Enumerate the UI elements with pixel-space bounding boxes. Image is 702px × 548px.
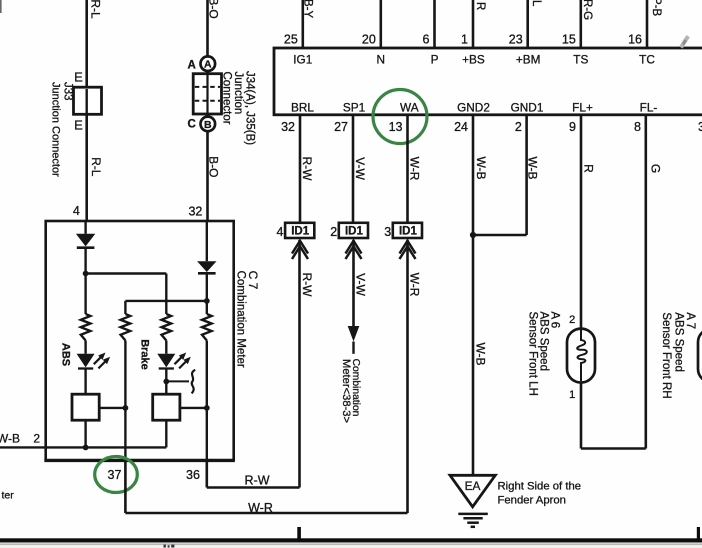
svg-text:32: 32 xyxy=(281,120,295,134)
svg-text:FL+: FL+ xyxy=(572,101,593,115)
wire B-O (to combination meter pin 32) xyxy=(206,0,209,221)
tiny cut glyphs xyxy=(164,545,166,548)
wire W-R lower xyxy=(406,240,409,513)
wire (to pin 36) xyxy=(206,408,208,461)
svg-text:20: 20 xyxy=(362,33,376,47)
wire xyxy=(165,369,167,395)
svg-text:W-R: W-R xyxy=(407,273,421,297)
wire xyxy=(84,420,86,447)
wire WA pin 13 (W-R) upper xyxy=(406,115,409,222)
wire (pin 4 to diode) xyxy=(84,221,86,234)
connector ring A xyxy=(201,56,216,71)
svg-text:ter: ter xyxy=(2,490,15,502)
svg-text:24: 24 xyxy=(454,120,468,134)
svg-text:R-L: R-L xyxy=(89,157,103,177)
svg-text:16: 16 xyxy=(628,33,642,47)
svg-text:9: 9 xyxy=(569,120,576,134)
off-page arrow to combination meter xyxy=(348,326,360,342)
wire IG1 pin 25 (to top) xyxy=(301,0,304,48)
svg-text:J33: J33 xyxy=(62,82,74,101)
wire N pin 20 (to top) xyxy=(379,0,382,48)
pencil mark xyxy=(681,36,688,47)
svg-text:37: 37 xyxy=(108,468,122,482)
junction xyxy=(204,298,210,304)
svg-text:Fender Apron: Fender Apron xyxy=(498,494,566,506)
resistor R1 xyxy=(81,314,91,341)
wire +BS pin 1 (to top) xyxy=(472,0,475,48)
svg-text:+BS: +BS xyxy=(462,53,485,67)
wire R-W horizontal xyxy=(207,486,300,489)
diode D2 xyxy=(197,261,216,272)
svg-text:1: 1 xyxy=(461,33,468,47)
svg-text:R-W: R-W xyxy=(245,473,270,487)
svg-text:27: 27 xyxy=(334,120,348,134)
connector ID1 pin 4 box xyxy=(285,223,314,238)
wire pin 37 to W-R xyxy=(124,460,127,513)
svg-text:B-O: B-O xyxy=(207,156,221,177)
svg-text:Sensor Front RH: Sensor Front RH xyxy=(660,312,672,398)
wire pin 36 to R-W xyxy=(206,460,209,487)
svg-text:4: 4 xyxy=(73,204,80,218)
svg-text:3: 3 xyxy=(698,120,702,134)
svg-text:Junction Connector: Junction Connector xyxy=(50,82,62,177)
wire to rheostat squiggle xyxy=(166,380,189,382)
wire R-L (to combination meter pin 4) xyxy=(85,0,88,221)
svg-text:36: 36 xyxy=(186,468,200,482)
wire FL+ pin 9 (R) xyxy=(580,115,583,329)
wire R-W lower xyxy=(298,240,301,488)
wire xyxy=(84,341,86,354)
svg-text:P: P xyxy=(431,53,439,67)
Brake warning LED xyxy=(157,354,175,368)
resistor R2 xyxy=(121,314,131,341)
svg-text:TS: TS xyxy=(573,53,588,67)
svg-text:Combination Meter: Combination Meter xyxy=(235,271,247,368)
svg-text:TC: TC xyxy=(639,53,655,67)
ABS speed sensor A7 body (clipped at edge) xyxy=(698,329,702,383)
resistor R4 xyxy=(202,314,212,341)
svg-text:23: 23 xyxy=(509,33,523,47)
ground EA triangle xyxy=(450,475,495,507)
svg-text:A: A xyxy=(204,59,212,71)
rheostat squiggle xyxy=(192,370,196,394)
svg-text:Meter<38-3>: Meter<38-3> xyxy=(340,359,352,423)
wire xyxy=(124,341,126,408)
wire xyxy=(165,341,167,354)
svg-text:W-R: W-R xyxy=(248,501,273,515)
svg-text:W-B: W-B xyxy=(474,156,488,179)
junction connector J34/J35 box xyxy=(193,74,221,114)
wire P pin 6 (to top) xyxy=(433,0,436,48)
svg-text:A 7: A 7 xyxy=(684,312,696,329)
svg-text:B: B xyxy=(204,119,212,131)
svg-text:13: 13 xyxy=(389,120,403,134)
wire xyxy=(206,341,208,408)
svg-text:2: 2 xyxy=(33,432,40,446)
svg-text:GND2: GND2 xyxy=(457,101,490,115)
svg-text:WA: WA xyxy=(400,101,419,115)
connector ID1 pin 2 box xyxy=(339,223,368,238)
wire (to pin 37) xyxy=(124,408,126,461)
junction connector J33 box xyxy=(74,87,102,114)
svg-text:W-B: W-B xyxy=(473,342,487,365)
svg-text:J34(A), J35(B): J34(A), J35(B) xyxy=(243,71,255,145)
svg-text:4: 4 xyxy=(277,225,284,239)
svg-text:P-B: P-B xyxy=(650,0,662,17)
svg-text:25: 25 xyxy=(284,33,298,47)
frame tick right xyxy=(697,527,700,539)
svg-text:L: L xyxy=(530,0,542,7)
bottom frame bar xyxy=(0,538,702,542)
svg-text:R-L: R-L xyxy=(88,0,102,19)
wire GND2 pin 24 (W-B) xyxy=(472,115,475,475)
wire W-B (meter pin 2) xyxy=(0,446,166,448)
svg-text:Junction: Junction xyxy=(232,72,244,115)
junction xyxy=(83,271,89,277)
svg-text:A: A xyxy=(188,60,196,72)
wire (diode 2 junction to resistor R2) xyxy=(125,300,206,302)
lamp module box S2 xyxy=(153,394,180,420)
svg-text:32: 32 xyxy=(188,205,202,219)
wire S2 to node xyxy=(180,407,207,409)
junction xyxy=(204,405,210,411)
svg-text:2: 2 xyxy=(330,225,337,239)
svg-text:C 7: C 7 xyxy=(246,271,260,290)
svg-text:EA: EA xyxy=(465,479,481,493)
wire GND1 pin 2 (W-B) xyxy=(525,115,528,235)
svg-text:8: 8 xyxy=(634,120,641,134)
wire TS pin 15 (to top) xyxy=(579,0,582,48)
svg-text:Sensor Front LH: Sensor Front LH xyxy=(527,312,539,396)
svg-text:3: 3 xyxy=(384,225,391,239)
svg-text:Right Side of the: Right Side of the xyxy=(498,481,582,493)
svg-text:R: R xyxy=(581,164,595,173)
svg-text:V-W: V-W xyxy=(353,273,367,296)
wire FL- pin 8 (G) xyxy=(644,115,647,449)
svg-text:R-G: R-G xyxy=(581,0,593,20)
wire S1 to node xyxy=(99,407,125,409)
svg-text:ID1: ID1 xyxy=(291,226,310,238)
svg-text:SP1: SP1 xyxy=(343,101,365,115)
connector chevrons xyxy=(346,241,362,254)
wire TC pin 16 (to top) xyxy=(646,0,649,48)
wire xyxy=(206,301,208,314)
svg-text:W-B: W-B xyxy=(0,432,20,446)
wire +BM pin 23 (to top) xyxy=(526,0,529,48)
svg-text:R-W: R-W xyxy=(300,273,314,298)
bottom strip xyxy=(0,545,702,548)
svg-text:GND1: GND1 xyxy=(511,101,544,115)
ABS speed sensor A6 body xyxy=(567,329,595,383)
combination meter C7 box xyxy=(46,221,234,460)
svg-text:W-B: W-B xyxy=(526,156,540,179)
junction xyxy=(83,445,89,451)
svg-text:V-W: V-W xyxy=(353,157,367,180)
junction xyxy=(123,405,129,411)
svg-text:ID1: ID1 xyxy=(345,226,364,238)
svg-text:FL-: FL- xyxy=(640,101,658,115)
connector chevrons xyxy=(292,241,308,254)
table rule below frame xyxy=(0,544,702,545)
svg-text:ABS Speed: ABS Speed xyxy=(673,312,685,371)
wire xyxy=(84,369,86,395)
junction (brake test line) xyxy=(163,379,169,385)
svg-text:E: E xyxy=(74,118,83,133)
svg-text:R: R xyxy=(474,2,486,10)
svg-text:C: C xyxy=(187,119,195,131)
svg-text:Brake: Brake xyxy=(138,339,150,370)
connector chevrons xyxy=(400,241,416,254)
svg-text:1: 1 xyxy=(569,389,575,401)
svg-text:G: G xyxy=(648,164,662,173)
svg-text:N: N xyxy=(377,53,386,67)
diode D1 xyxy=(76,234,95,247)
wire xyxy=(84,274,86,315)
highlight circle around WA pin 13 xyxy=(373,90,427,144)
wire (diode junction to brake chain) xyxy=(86,272,167,274)
svg-text:BRL: BRL xyxy=(291,101,314,115)
wire xyxy=(165,420,167,447)
connector ring B xyxy=(201,117,216,132)
wire (pin 32 to diode) xyxy=(206,221,208,261)
wire xyxy=(84,248,86,274)
svg-text:+BM: +BM xyxy=(516,53,541,67)
svg-text:2: 2 xyxy=(569,314,575,326)
frame tick xyxy=(297,527,301,539)
wire sensor A6 to FL- xyxy=(580,383,583,449)
svg-text:E: E xyxy=(74,70,83,85)
junction GND1/GND2 xyxy=(470,232,476,238)
wire xyxy=(206,273,208,301)
svg-text:W-R: W-R xyxy=(407,157,421,181)
svg-text:IG1: IG1 xyxy=(293,53,312,67)
svg-text:ABS: ABS xyxy=(60,343,72,366)
wire BRL pin 32 (R-W) upper xyxy=(299,115,302,222)
connector ID1 pin 3 box xyxy=(393,223,422,238)
lamp module box S1 xyxy=(72,394,99,420)
ground symbol xyxy=(458,513,488,516)
resistor R3 xyxy=(162,314,172,341)
svg-text:15: 15 xyxy=(562,33,576,47)
svg-text:Connector: Connector xyxy=(221,72,233,125)
wire SP1 pin 27 (V-W) upper xyxy=(352,115,355,222)
svg-text:B-O: B-O xyxy=(206,0,220,19)
left edge mark xyxy=(0,0,2,13)
svg-text:6: 6 xyxy=(423,33,430,47)
ABS warning LED xyxy=(77,354,95,368)
sensor A6 coil xyxy=(577,330,587,381)
svg-text:B-Y: B-Y xyxy=(302,0,314,19)
svg-text:2: 2 xyxy=(515,120,522,134)
wire W-R horizontal xyxy=(125,512,407,515)
wire V-W lower xyxy=(352,240,355,327)
highlight circle around pin 37 xyxy=(95,457,138,493)
ECU connector box (ABS control module) xyxy=(274,48,702,115)
svg-text:R-W: R-W xyxy=(300,157,314,182)
svg-text:ID1: ID1 xyxy=(399,226,418,238)
